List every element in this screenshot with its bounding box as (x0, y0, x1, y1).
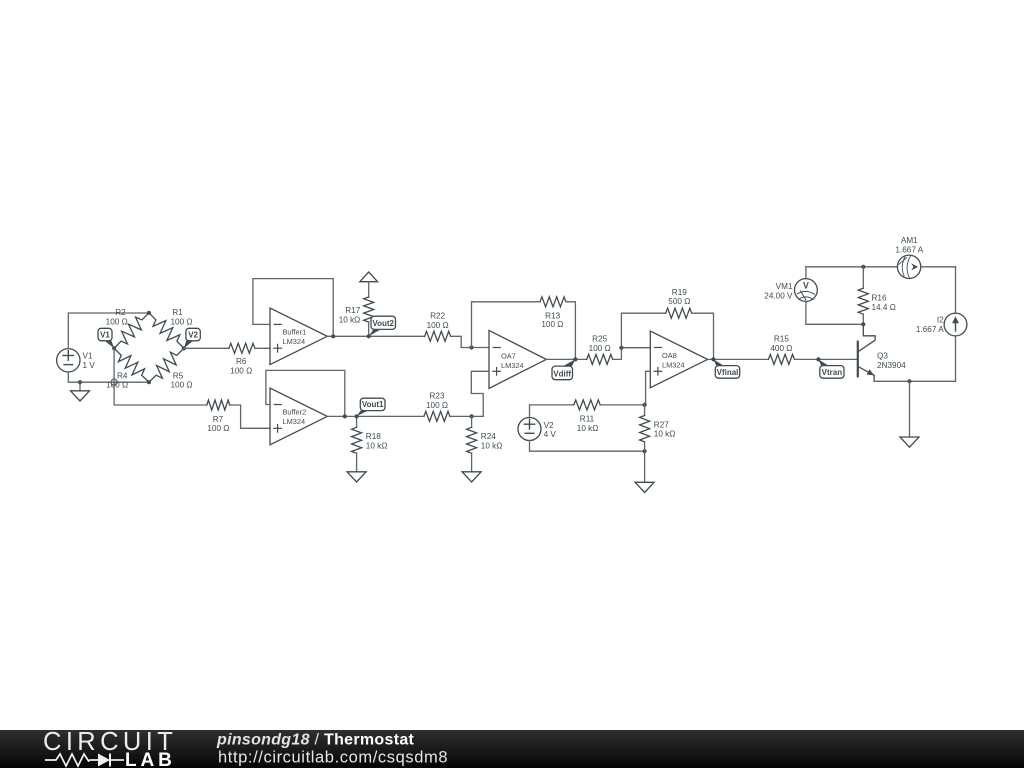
svg-text:100 Ω: 100 Ω (207, 424, 229, 433)
svg-text:I2: I2 (937, 315, 944, 324)
svg-text:Vtran: Vtran (822, 368, 843, 377)
svg-text:Buffer1: Buffer1 (283, 327, 307, 336)
svg-text:V1: V1 (100, 330, 110, 339)
svg-text:10 kΩ: 10 kΩ (366, 441, 388, 450)
svg-text:R4: R4 (117, 371, 128, 380)
svg-text:Vfinal: Vfinal (717, 368, 739, 377)
svg-text:R19: R19 (672, 288, 687, 297)
svg-text:R24: R24 (481, 432, 496, 441)
svg-text:1.667 A: 1.667 A (916, 325, 944, 334)
svg-text:R6: R6 (236, 357, 247, 366)
svg-text:10 kΩ: 10 kΩ (339, 315, 361, 324)
svg-text:400 Ω: 400 Ω (770, 344, 792, 353)
svg-text:V2: V2 (188, 330, 198, 339)
svg-text:100 Ω: 100 Ω (106, 317, 128, 326)
svg-text:R7: R7 (213, 415, 224, 424)
svg-text:24.00 V: 24.00 V (764, 292, 793, 301)
svg-text:100 Ω: 100 Ω (170, 381, 192, 390)
svg-text:2N3904: 2N3904 (877, 361, 906, 370)
svg-text:Vout2: Vout2 (372, 319, 394, 328)
svg-text:1 V: 1 V (83, 361, 96, 370)
svg-text:V: V (803, 281, 809, 291)
svg-text:R27: R27 (654, 420, 669, 429)
svg-text:R1: R1 (172, 308, 183, 317)
svg-text:http://circuitlab.com/csqsdm8: http://circuitlab.com/csqsdm8 (218, 749, 448, 767)
svg-text:LM324: LM324 (283, 337, 306, 346)
svg-text:Buffer2: Buffer2 (283, 408, 307, 417)
svg-text:R16: R16 (872, 294, 887, 303)
svg-text:V1: V1 (83, 352, 93, 361)
svg-text:100 Ω: 100 Ω (541, 320, 563, 329)
svg-text:R13: R13 (545, 311, 560, 320)
svg-text:100 Ω: 100 Ω (589, 344, 611, 353)
svg-text:R15: R15 (774, 335, 789, 344)
svg-text:OA7: OA7 (501, 351, 516, 360)
svg-text:R2: R2 (115, 308, 126, 317)
svg-text:1.667 A: 1.667 A (895, 245, 923, 254)
svg-text:Vout1: Vout1 (362, 400, 384, 409)
svg-text:R11: R11 (580, 415, 595, 424)
svg-text:R25: R25 (592, 335, 607, 344)
svg-text:R5: R5 (173, 371, 184, 380)
svg-text:R18: R18 (366, 432, 381, 441)
svg-text:100 Ω: 100 Ω (230, 366, 252, 375)
svg-text:pinsondg18 / Thermostat: pinsondg18 / Thermostat (216, 732, 415, 749)
svg-text:100 Ω: 100 Ω (426, 401, 448, 410)
svg-text:LM324: LM324 (662, 360, 685, 369)
svg-text:10 kΩ: 10 kΩ (577, 424, 599, 433)
svg-text:R17: R17 (345, 306, 360, 315)
svg-text:Q3: Q3 (877, 352, 888, 361)
svg-text:100 Ω: 100 Ω (427, 321, 449, 330)
svg-text:10 kΩ: 10 kΩ (654, 430, 676, 439)
svg-text:LM324: LM324 (283, 417, 306, 426)
svg-text:100 Ω: 100 Ω (170, 317, 192, 326)
svg-text:R23: R23 (429, 391, 444, 400)
svg-text:LM324: LM324 (501, 361, 524, 370)
svg-text:4 V: 4 V (544, 430, 557, 439)
svg-text:V2: V2 (544, 421, 554, 430)
svg-text:OA8: OA8 (662, 351, 677, 360)
svg-text:500 Ω: 500 Ω (668, 297, 690, 306)
svg-text:R22: R22 (430, 311, 445, 320)
svg-text:14.4 Ω: 14.4 Ω (872, 303, 896, 312)
svg-text:LAB: LAB (125, 750, 176, 768)
svg-text:VM1: VM1 (776, 282, 793, 291)
svg-text:Vdiff: Vdiff (553, 369, 571, 378)
svg-text:AM1: AM1 (901, 236, 918, 245)
svg-text:10 kΩ: 10 kΩ (481, 441, 503, 450)
